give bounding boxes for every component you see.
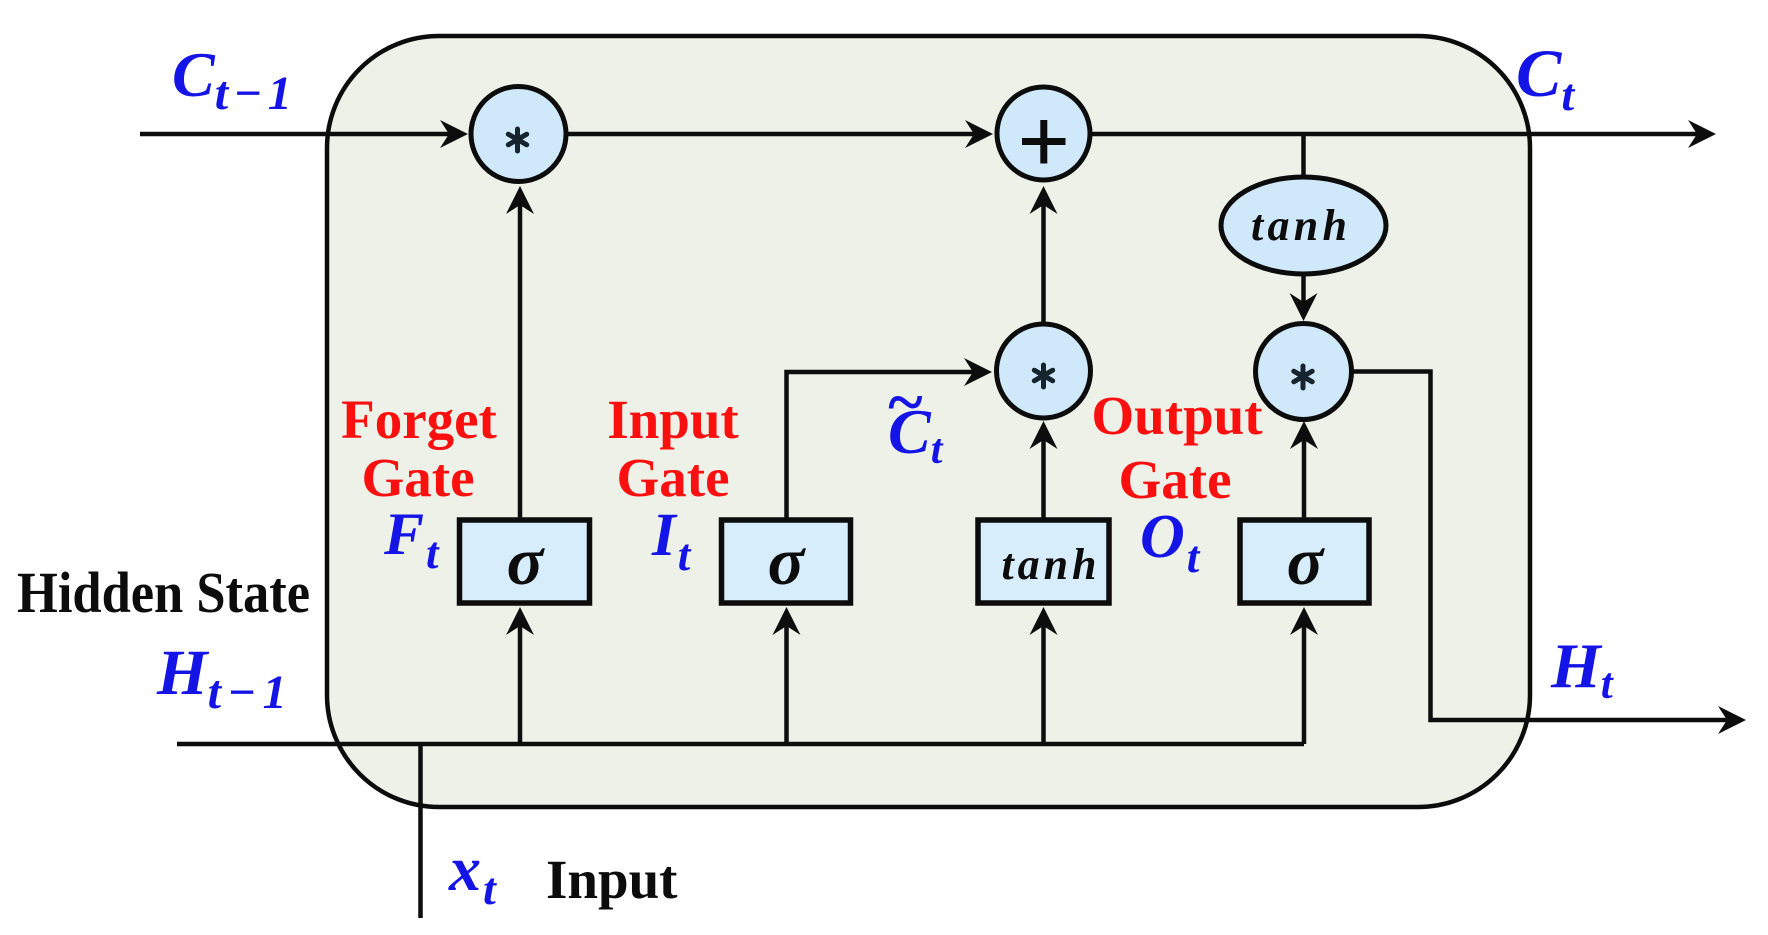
wire hidden-state bus <box>177 742 1304 747</box>
wire bus riser to forget gate <box>518 625 523 744</box>
svg-text:Output: Output <box>1091 385 1263 446</box>
multiply node star1 <box>471 87 566 182</box>
wire input x_t drop <box>418 744 423 918</box>
svg-text:Input: Input <box>546 849 678 910</box>
wire tanh-box riser <box>1041 436 1046 521</box>
LSTM cell body <box>327 36 1530 807</box>
svg-text:Forget: Forget <box>341 389 497 450</box>
svg-text:Input: Input <box>607 389 739 450</box>
svg-text:Ht: Ht <box>1550 630 1615 708</box>
wire hidden-state output elbow <box>1351 372 1730 721</box>
svg-text:~: ~ <box>886 366 924 439</box>
forget gate sigma box <box>460 520 590 603</box>
svg-text:Hidden State: Hidden State <box>17 560 310 625</box>
tanh ellipse node <box>1221 177 1386 274</box>
svg-text:Gate: Gate <box>616 447 729 508</box>
wire bus riser to input gate <box>784 625 789 744</box>
wire cell-state output segment <box>1090 132 1700 137</box>
svg-text:Ct−1: Ct−1 <box>172 39 292 120</box>
svg-text:Gate: Gate <box>1118 449 1231 510</box>
svg-text:Ct: Ct <box>1516 35 1575 120</box>
svg-text:σ: σ <box>768 523 807 599</box>
wire bus riser to tanh box <box>1041 625 1046 744</box>
svg-text:σ: σ <box>1287 523 1326 599</box>
wire cell-to-tanh riser <box>1301 136 1306 178</box>
wire output-gate riser <box>1302 436 1307 521</box>
svg-text:xt: xt <box>448 833 497 914</box>
wire input-gate elbow <box>787 372 979 521</box>
candidate tanh box <box>978 520 1109 603</box>
add node plus <box>997 87 1090 180</box>
svg-text:σ: σ <box>507 523 546 599</box>
wire cell-state input segment <box>140 132 459 137</box>
wire bus riser to output gate <box>1302 625 1307 744</box>
svg-text:Gate: Gate <box>361 447 474 508</box>
wire forget-gate riser <box>518 203 523 521</box>
wire cell-state middle segment <box>566 132 983 137</box>
multiply node star3 <box>1256 324 1352 420</box>
multiply node star2 <box>997 324 1091 418</box>
wire tanh-to-star arrow <box>1301 273 1306 302</box>
input gate sigma box <box>722 520 851 603</box>
svg-text:Ht−1: Ht−1 <box>156 637 287 719</box>
output gate sigma box <box>1240 520 1369 603</box>
wire candidate-to-plus riser <box>1041 203 1046 323</box>
